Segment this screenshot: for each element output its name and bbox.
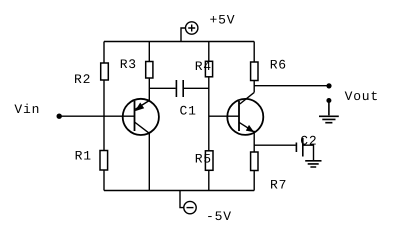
wire Vin to Q1 base [59, 115, 135, 117]
transistor Q1 (PNP) [123, 99, 159, 135]
supply -5V symbol [184, 201, 196, 213]
wire Q2 emitter horizontal to C2 [254, 144, 296, 146]
svg-text:Vout: Vout [345, 89, 379, 104]
wire left branch vertical [103, 42, 105, 191]
resistor R5 [205, 151, 213, 171]
wire +5V stub [181, 28, 186, 42]
wire bottom rail [104, 190, 254, 192]
wire C2 right segment and drop [304, 145, 314, 160]
svg-text:C2: C2 [300, 134, 317, 149]
wire middle branch vertical [208, 42, 210, 191]
resistor R2 [101, 63, 109, 80]
wire -5V stub [180, 191, 184, 208]
node Vin dot [57, 114, 62, 119]
node Vout dot [326, 83, 331, 88]
resistor R6 [251, 62, 258, 81]
svg-text:+5V: +5V [210, 13, 236, 28]
svg-text:R6: R6 [270, 58, 287, 73]
transistor Q2 (NPN) [227, 92, 263, 134]
wire C1 left segment [149, 87, 175, 89]
wire Vout horizontal [254, 85, 329, 87]
wire Q2 base from middle branch [209, 115, 239, 117]
resistor R7 [251, 152, 258, 171]
svg-text:Vin: Vin [14, 102, 40, 117]
capacitor C2 [296, 138, 302, 157]
svg-text:-5V: -5V [206, 209, 232, 224]
resistor R3 [146, 62, 153, 79]
svg-text:R5: R5 [195, 151, 212, 166]
svg-text:R2: R2 [74, 72, 91, 87]
svg-text:R1: R1 [75, 148, 92, 163]
ground (C2) [305, 161, 321, 167]
wire C1 right segment [184, 87, 209, 89]
wire R7 / Q2 emitter vertical [253, 131, 255, 191]
wire top rail [104, 41, 254, 43]
resistor R1 [100, 151, 108, 171]
wire R3/Q1 vertical upper [148, 42, 150, 101]
svg-text:R3: R3 [120, 57, 137, 72]
capacitor C1 [176, 80, 183, 97]
wire R6 branch vertical [253, 42, 255, 93]
svg-text:R7: R7 [270, 177, 287, 192]
supply +5V symbol [186, 22, 198, 34]
svg-text:R4: R4 [195, 59, 212, 74]
svg-text:C1: C1 [180, 103, 197, 118]
wire Q1 collector vertical lower [148, 133, 150, 190]
resistor R4 [205, 61, 212, 77]
ground (Vout) with node dot [319, 98, 339, 123]
